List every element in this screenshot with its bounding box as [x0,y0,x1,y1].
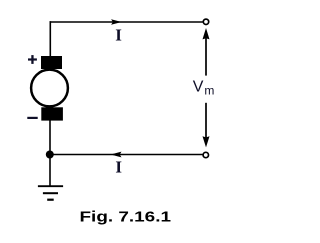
ground symbol [38,186,63,200]
arrowhead Vm up [203,28,210,39]
label + polarity [28,55,37,64]
svg-text:I: I [115,26,122,45]
wire bottom horizontal [50,154,203,156]
wire motor bottom to ground [49,121,51,187]
wire Vm vertical upper segment [205,38,207,76]
wire left vertical from motor to top corner [49,21,51,57]
svg-text:I: I [115,158,122,177]
wire top horizontal [50,21,203,23]
svg-text:V: V [193,79,204,96]
arrowhead current I bottom (points left) [111,152,122,158]
arrowhead Vm down [203,136,210,147]
label - polarity [27,117,37,119]
svg-text:m: m [204,84,214,98]
svg-text:Fig. 7.16.1: Fig. 7.16.1 [80,209,172,226]
junction dot node [46,151,54,159]
terminal node bottom right [203,152,208,157]
motor M1 armature circle [31,70,68,107]
motor M1 brush bottom [41,107,63,120]
terminal node top right [203,19,208,24]
motor M1 brush top [41,56,62,69]
arrowhead current I top (points right) [111,19,122,25]
wire Vm vertical lower segment [205,103,207,139]
